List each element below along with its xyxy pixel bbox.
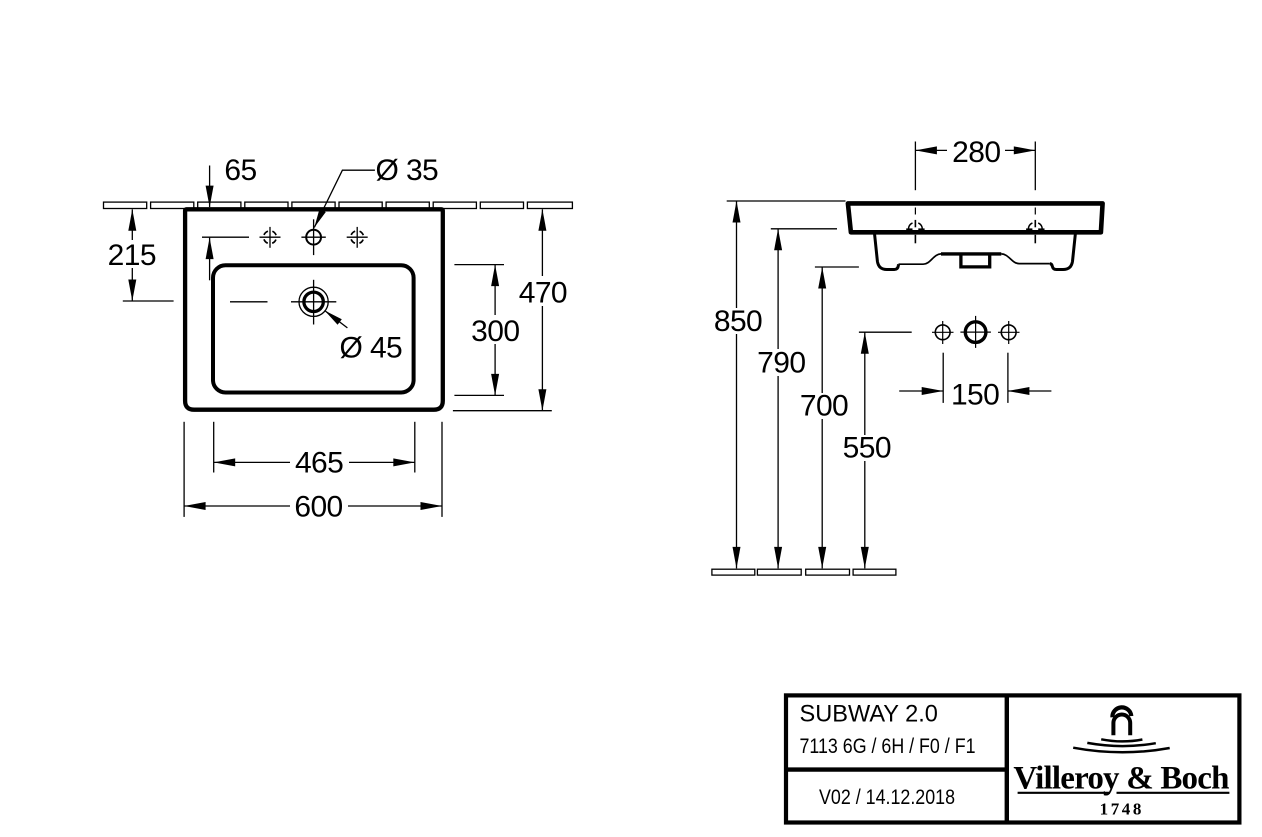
right supply connection circle <box>998 321 1020 344</box>
svg-text:790: 790 <box>757 346 805 379</box>
svg-text:850: 850 <box>714 305 762 338</box>
svg-text:215: 215 <box>108 239 156 272</box>
svg-text:V02 / 14.12.2018: V02 / 14.12.2018 <box>819 785 955 809</box>
logo tap arch <box>1112 707 1131 735</box>
article number text <box>800 734 976 758</box>
dimension 550 <box>840 332 912 568</box>
svg-text:150: 150 <box>951 378 999 411</box>
dimension 790 <box>755 229 837 569</box>
svg-text:465: 465 <box>295 447 343 480</box>
faucet hole centre reference line <box>202 236 249 238</box>
leader and label diameter 35 <box>314 154 438 228</box>
dimension 700 <box>797 267 859 568</box>
leader and label diameter 45 <box>325 311 403 365</box>
drain outlet box <box>961 254 990 267</box>
wall hatch tiles (plan view) <box>104 202 573 208</box>
floor hatch tiles <box>712 569 896 575</box>
lower profile right middle curve <box>1001 254 1050 264</box>
lower profile right leg <box>1050 234 1076 270</box>
svg-text:Villeroy & Boch: Villeroy & Boch <box>1013 761 1229 797</box>
centre faucet hole <box>301 219 325 255</box>
right fixing hole (front view) <box>1026 208 1044 244</box>
lower profile left middle curve <box>899 254 942 264</box>
svg-text:1748: 1748 <box>1100 799 1144 818</box>
dimension 215 <box>106 209 174 301</box>
logo ripple arcs <box>1073 739 1170 752</box>
left optional faucet hole (dashed) <box>260 227 281 248</box>
dimension 280 <box>915 136 1035 190</box>
centre drain connection circle <box>960 316 991 348</box>
product name text <box>800 701 938 728</box>
drain shelf line <box>941 252 1001 255</box>
drain hole <box>230 280 336 325</box>
lower profile left leg (front view) <box>875 234 899 270</box>
dimension 150 <box>899 353 1051 412</box>
svg-text:280: 280 <box>952 136 1000 169</box>
svg-text:Ø 45: Ø 45 <box>340 332 403 365</box>
svg-text:700: 700 <box>800 390 848 423</box>
svg-text:300: 300 <box>471 315 519 348</box>
svg-text:65: 65 <box>224 154 256 187</box>
svg-text:550: 550 <box>843 432 891 465</box>
svg-text:600: 600 <box>294 490 342 523</box>
svg-text:SUBWAY 2.0: SUBWAY 2.0 <box>800 701 938 728</box>
version date text <box>819 785 955 809</box>
dimension 65 <box>206 154 257 280</box>
dimension 470 <box>453 209 569 410</box>
svg-text:7113 6G / 6H / F0 / F1: 7113 6G / 6H / F0 / F1 <box>800 734 976 758</box>
dimension 465 <box>214 422 415 480</box>
basin rim band (front view) <box>848 203 1103 232</box>
title block frame <box>786 695 1239 822</box>
svg-text:Ø 35: Ø 35 <box>376 154 439 187</box>
logo year 1748 <box>1100 799 1144 818</box>
logo underline <box>1018 792 1230 794</box>
logo wordmark Villeroy & Boch <box>1013 761 1229 797</box>
dimension 850 <box>711 201 846 568</box>
dimension 600 <box>184 422 442 524</box>
dimension 300 <box>454 265 522 396</box>
left supply connection circle <box>932 321 954 344</box>
svg-text:470: 470 <box>519 277 567 310</box>
inner basin bowl outline <box>213 265 414 392</box>
left fixing hole (front view) <box>906 208 924 244</box>
right optional faucet hole (dashed) <box>347 227 368 248</box>
washbasin outer outline (plan) <box>185 209 443 409</box>
